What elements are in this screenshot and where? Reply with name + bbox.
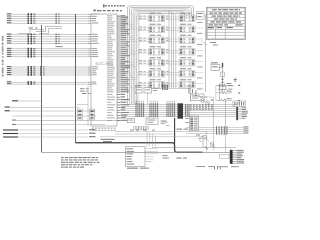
- DRAM chip U3: [179, 13, 195, 22]
- feature connector J2 body: [190, 116, 199, 131]
- bias parts near Q2: [200, 97, 214, 101]
- U1 left pins for address bus A0-A4: [88, 48, 98, 57]
- divider box U19: [128, 119, 135, 123]
- pin net labels DRAM row 3: [139, 38, 169, 41]
- transistor Q1 chain vertical wire: [222, 63, 223, 92]
- buffer U20 box below pixel bus: [146, 118, 158, 125]
- net labels for address bus A0-A4: [7, 48, 12, 57]
- labels left of J2: [185, 118, 189, 123]
- pull-up resistor pack pins on data bus D5-D7 / IOR IOW: [28, 34, 36, 45]
- resistor labels R20-R23: [80, 88, 91, 94]
- wire from U1 pin to address loop: [117, 15, 128, 17]
- schematic note text block: [61, 157, 99, 168]
- address bus leg (7th): [138, 14, 140, 88]
- horizontal sync bus lines lower right: [186, 127, 249, 133]
- transistor Q3: [206, 101, 210, 105]
- DRAM chip U12: [149, 68, 165, 77]
- U1 left pins for data bus D5-D7 / IOR IOW: [88, 34, 99, 44]
- decoupling capacitor row C10-C17: [190, 104, 213, 110]
- vertical bus wire (net to video section), x=76: [75, 14, 77, 143]
- title block revision table header: [208, 27, 233, 28]
- DRAM chip U13: [179, 68, 195, 77]
- sync series resistor R12: [216, 98, 240, 101]
- capacitor C20 to ground: [234, 77, 237, 83]
- pin net labels DRAM row 4: [139, 49, 169, 52]
- DRAM chip U11: [179, 57, 195, 66]
- pin net labels DRAM row 2: [139, 27, 169, 30]
- wire latch to DAC: [152, 88, 191, 90]
- right DRAM column pin labels: [197, 22, 203, 90]
- wire group to oscillator: [12, 100, 41, 101]
- diode D2 diagonal: [199, 140, 201, 142]
- feature connector J2 pin rows: [190, 118, 197, 130]
- wire group: address bus A0-A4: [7, 49, 91, 57]
- wire group: data bus D5-D7 / IOR IOW: [7, 35, 91, 44]
- U1 reference label text above chip: [94, 9, 123, 11]
- series resistors on data bus D0-D4: [56, 13, 60, 23]
- resistor network RN4 box: [233, 101, 246, 107]
- bias resistor label near Q5: [177, 158, 188, 159]
- ISA bus edge labels (vertical text): [2, 36, 4, 77]
- tilted resistor R30: [162, 121, 169, 124]
- GND power wire: [3, 136, 96, 137]
- hsync wire down to connector area: [212, 97, 214, 131]
- U21 label text below: [127, 168, 149, 169]
- thick vertical wire from connector J4 to bundle: [174, 118, 176, 144]
- labels below J1: [196, 166, 239, 167]
- U21 pin label rows: [127, 148, 135, 164]
- U1 left pins for address bus A5-A9: [88, 66, 98, 75]
- wires pixel bus down to U20: [149, 117, 154, 119]
- +5V power wire: [3, 133, 96, 134]
- DRAM chip U9: [179, 46, 195, 55]
- pixel data bus wires: [122, 105, 237, 117]
- DRAM chip U7: [179, 35, 195, 44]
- pin net labels DRAM row 5: [139, 60, 169, 63]
- termination resistor cluster on sync lines: [216, 126, 227, 135]
- pull-up resistor pack pins on data bus D0-D4: [28, 13, 36, 24]
- connector J5 pin stubs and labels: [238, 107, 248, 119]
- capacitor labels on lower wires: [130, 130, 155, 131]
- latch U17: [144, 88, 152, 94]
- sync series resistor R10: [216, 83, 240, 86]
- bus legs between DRAM columns: [169, 11, 176, 89]
- resistor network RN1 on pixel bus: [136, 101, 145, 117]
- step wire from group2 to node: [36, 26, 62, 31]
- title block text: board title: [210, 13, 243, 14]
- row wires DRAM row 2: [137, 28, 204, 31]
- text below title block: [210, 42, 218, 46]
- video connector J1 body (dark bar): [230, 150, 233, 164]
- resistor network RN2 on pixel bus: [150, 101, 159, 117]
- clock buffer U18 box: [191, 94, 205, 101]
- DRAM chip U6: [149, 35, 165, 44]
- transistor Q2: [201, 99, 205, 103]
- video amp transistor Q5: [210, 143, 216, 149]
- pin note text above thick bus: [101, 139, 115, 142]
- +12V power wire: [3, 129, 96, 130]
- wire group: address bus A5-A9: [7, 67, 91, 75]
- series resistors on data bus D5-D7 / IOR IOW: [56, 34, 60, 45]
- labels right of U20: [161, 121, 167, 124]
- R1 chain marks: [222, 79, 224, 83]
- net labels for data bus D0-D4: [7, 13, 12, 23]
- connector block J4 (dark) on pixel bus: [178, 103, 184, 118]
- pull-up resistor pack pins on address bus A0-A4: [28, 48, 36, 58]
- sync ladder trunk wire: [216, 83, 219, 101]
- ticks right of J4: [185, 104, 190, 117]
- net labels for data bus D5-D7 / IOR IOW: [7, 34, 12, 44]
- title block text: drawing number: [214, 18, 237, 19]
- wire U18 to right: [204, 96, 213, 98]
- video ground return wire: [42, 151, 230, 153]
- wire crystal vertical: [87, 86, 89, 126]
- pin net labels DRAM row 6: [139, 71, 169, 74]
- title block revision table column lines: [215, 26, 225, 39]
- label near Q4: [196, 135, 202, 139]
- wire pair to hsync circuit: [218, 86, 228, 90]
- wires upper bottom-right lines: [100, 131, 207, 137]
- oscillator Y2 label: [211, 62, 218, 63]
- net label next to latches: [153, 88, 159, 91]
- title block text: date line: [211, 21, 242, 22]
- title block outer border: [206, 7, 245, 39]
- diode D1 diagonal: [205, 146, 208, 149]
- DRAM chip U15: [179, 79, 195, 88]
- hsync driver box: [220, 86, 226, 89]
- oscillator Y2 box: [211, 65, 219, 71]
- labels right of hsync driver: [228, 85, 234, 89]
- DRAM chip U8: [149, 46, 165, 55]
- video signal wire mid: [152, 147, 236, 149]
- DRAM chip U14: [149, 79, 165, 88]
- DRAM chip U4: [149, 24, 165, 33]
- wires latches down to pixel bus: [138, 93, 148, 105]
- U1 part number text 82C451: [95, 61, 113, 67]
- resistor label RP4 4.7K: [177, 129, 189, 130]
- title block text: subtitle: [212, 16, 241, 17]
- DRAM chip U2: [149, 13, 165, 22]
- capacitors C22 C23 near U1 lower right: [188, 88, 197, 96]
- vertical wire x=203 into video out: [202, 137, 204, 148]
- step wire bundle stair 0: [18, 30, 44, 34]
- connector J5 body (dark bar): [236, 107, 238, 120]
- pull-up resistor pack pins on address bus A5-A9: [28, 66, 36, 76]
- inductor L1 box near J1: [220, 154, 230, 158]
- crystal Y1 circuit block: [78, 109, 83, 120]
- riser wires from sync lines to U21 area: [147, 132, 155, 147]
- diagonal wire below title block: [201, 41, 207, 45]
- U1 bottom pin-number text rows: [92, 128, 116, 131]
- row wires DRAM row 6: [137, 73, 204, 76]
- U1 right side pins with net labels: [107, 15, 130, 121]
- BIOS ROM U21 box: [126, 147, 146, 167]
- step wire 2: [39, 28, 62, 33]
- DRAM chip U5: [179, 24, 195, 33]
- DRAM chip U10: [149, 57, 165, 66]
- wire VCC to crystal circuit: [77, 104, 88, 106]
- U1 left pins for data bus D0-D4: [88, 14, 99, 24]
- wires sync into J1: [213, 131, 225, 151]
- bias network vertical wire: [190, 87, 192, 102]
- resistor network RN3 on pixel bus: [167, 101, 176, 117]
- vertical bus wire (net to bottom-left), x=41: [41, 25, 43, 152]
- title block text: company name: [212, 9, 240, 10]
- VGA controller U1 body outline: [91, 14, 117, 126]
- right edge net labels of sync lines: [244, 126, 249, 133]
- pin net labels DRAM row 1: [139, 16, 169, 19]
- wire group: data bus D0-D4: [7, 14, 91, 23]
- row wires DRAM row 7: [137, 84, 204, 87]
- latch U16: [135, 85, 142, 93]
- wire IRQ line: [5, 106, 79, 107]
- wire DACK line: [5, 110, 96, 111]
- thick composite wire bundle to video section: [76, 143, 203, 153]
- vsync wire down: [224, 99, 226, 133]
- vertical wire x=207 to ground line: [206, 131, 208, 152]
- U1 left pins for address bus A10-A11: [88, 82, 97, 85]
- title block text: scale/sheet: [209, 24, 243, 25]
- labels near capacitors: [187, 86, 192, 87]
- wire crystal bottom / OSC return line: [12, 124, 105, 125]
- video connector J1 pin stubs and labels: [233, 150, 245, 164]
- title block row lines: [207, 12, 244, 36]
- wire group: address bus A10-A11: [7, 82, 91, 84]
- net labels for address bus A10-A11: [7, 81, 12, 84]
- tilted resistor R31: [166, 125, 170, 127]
- stub wires U1 to loop legs: [120, 19, 136, 88]
- net labels for address bus A5-A9: [7, 66, 12, 75]
- video amp transistor Q4: [203, 135, 209, 141]
- wire Y2 output: [219, 67, 222, 69]
- sync series resistor R11: [216, 91, 240, 94]
- net name header row top: [103, 4, 124, 7]
- wire reset line: [12, 115, 96, 117]
- pin net labels DRAM row 7: [139, 82, 169, 85]
- jumper block row JP1: [134, 127, 149, 130]
- buffer U25 small box top right: [197, 12, 205, 20]
- U22 label right of BIOS box: [163, 155, 170, 158]
- memory address bus loop wires (nested): [128, 6, 194, 105]
- resistor R1 on Q1 chain: [221, 72, 224, 77]
- capacitor C8/C9 block: [90, 109, 95, 120]
- row wires DRAM row 4: [137, 51, 204, 54]
- wire clock line to divider: [12, 120, 128, 121]
- U21 right pin wires: [145, 149, 158, 162]
- resistor pack RP3: [162, 85, 168, 91]
- pull-up resistor pack pins on address bus A10-A11: [28, 81, 36, 85]
- row wires DRAM row 3: [137, 39, 204, 42]
- row wires DRAM row 1: [137, 17, 204, 20]
- row wires DRAM row 5: [137, 62, 204, 65]
- ferrite bead FB1 below bar: [214, 166, 221, 169]
- outer address loop leg to oscillator: [204, 14, 206, 92]
- power label +5V near bus group 1: [29, 27, 38, 28]
- series resistors on address bus A5-A9: [40, 66, 45, 76]
- label near step wires: [56, 46, 63, 47]
